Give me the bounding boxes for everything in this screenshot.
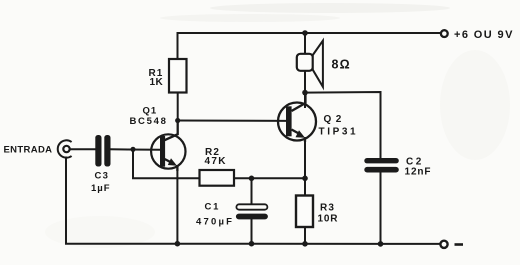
svg-text:+6 OU 9V: +6 OU 9V	[454, 29, 514, 41]
input jack ENTRADA	[58, 140, 72, 157]
node dot Q1 base	[130, 147, 135, 152]
wire R3 bottom lead	[304, 227, 306, 244]
capacitor C3	[95, 135, 110, 167]
capacitor C2	[364, 158, 399, 173]
transistor Q2	[278, 93, 316, 142]
label minus	[455, 243, 464, 246]
svg-text:12nF: 12nF	[405, 167, 432, 178]
svg-text:47K: 47K	[205, 156, 227, 167]
node dot rail C1	[249, 241, 255, 247]
svg-text:1µF: 1µF	[91, 183, 111, 194]
resistor R1	[169, 59, 187, 93]
wire Q1 collector node to Q2 base	[178, 120, 286, 122]
wire C3 to Q1 base	[111, 148, 161, 151]
node dot Q2 emitter / R2	[302, 176, 308, 182]
speaker SPK	[297, 41, 323, 87]
svg-text:10R: 10R	[318, 214, 339, 225]
node dot R2 / C1	[249, 176, 255, 182]
wire node A down to R2 row	[133, 149, 199, 178]
node dot top rail / speaker	[302, 30, 308, 36]
terminal negative	[440, 241, 447, 248]
svg-text:Q2: Q2	[324, 114, 346, 125]
wire R1 bottom to collector node	[177, 93, 179, 121]
svg-text:TIP31: TIP31	[319, 127, 359, 138]
node dot rail C2	[378, 241, 384, 247]
svg-text:470µF: 470µF	[196, 217, 234, 228]
svg-text:C1: C1	[205, 202, 221, 213]
node dot rail Q1 emitter	[175, 241, 181, 247]
wire C1 top lead	[251, 178, 253, 204]
wire speaker branch	[304, 33, 306, 107]
wire Q2 emitter to R3	[304, 138, 306, 196]
wire Q1 emitter to ground rail	[176, 166, 178, 244]
wire bottom rail	[66, 158, 441, 244]
svg-text:8Ω: 8Ω	[332, 58, 351, 72]
wire speaker to C2	[305, 92, 381, 158]
resistor R2	[200, 170, 235, 186]
node dot speaker bottom	[302, 90, 308, 96]
wire C1 bottom lead	[251, 219, 253, 244]
svg-text:C3: C3	[95, 171, 110, 182]
transistor Q1	[151, 121, 185, 172]
wire input to C3	[70, 148, 96, 150]
resistor R3	[296, 196, 313, 228]
node dot rail R3	[302, 241, 308, 247]
wire top rail	[178, 33, 441, 59]
terminal +V	[441, 30, 448, 37]
svg-text:Q1: Q1	[143, 106, 158, 117]
node dot Q1 collector / Q2 base	[175, 118, 180, 123]
wire R2 to Q2 emitter row	[234, 177, 305, 179]
svg-text:R3: R3	[320, 203, 335, 214]
capacitor C1	[236, 204, 268, 219]
wire C2 bottom lead	[380, 172, 382, 244]
svg-text:1K: 1K	[150, 77, 164, 88]
svg-text:ENTRADA: ENTRADA	[4, 144, 53, 155]
svg-text:BC548: BC548	[130, 116, 168, 127]
